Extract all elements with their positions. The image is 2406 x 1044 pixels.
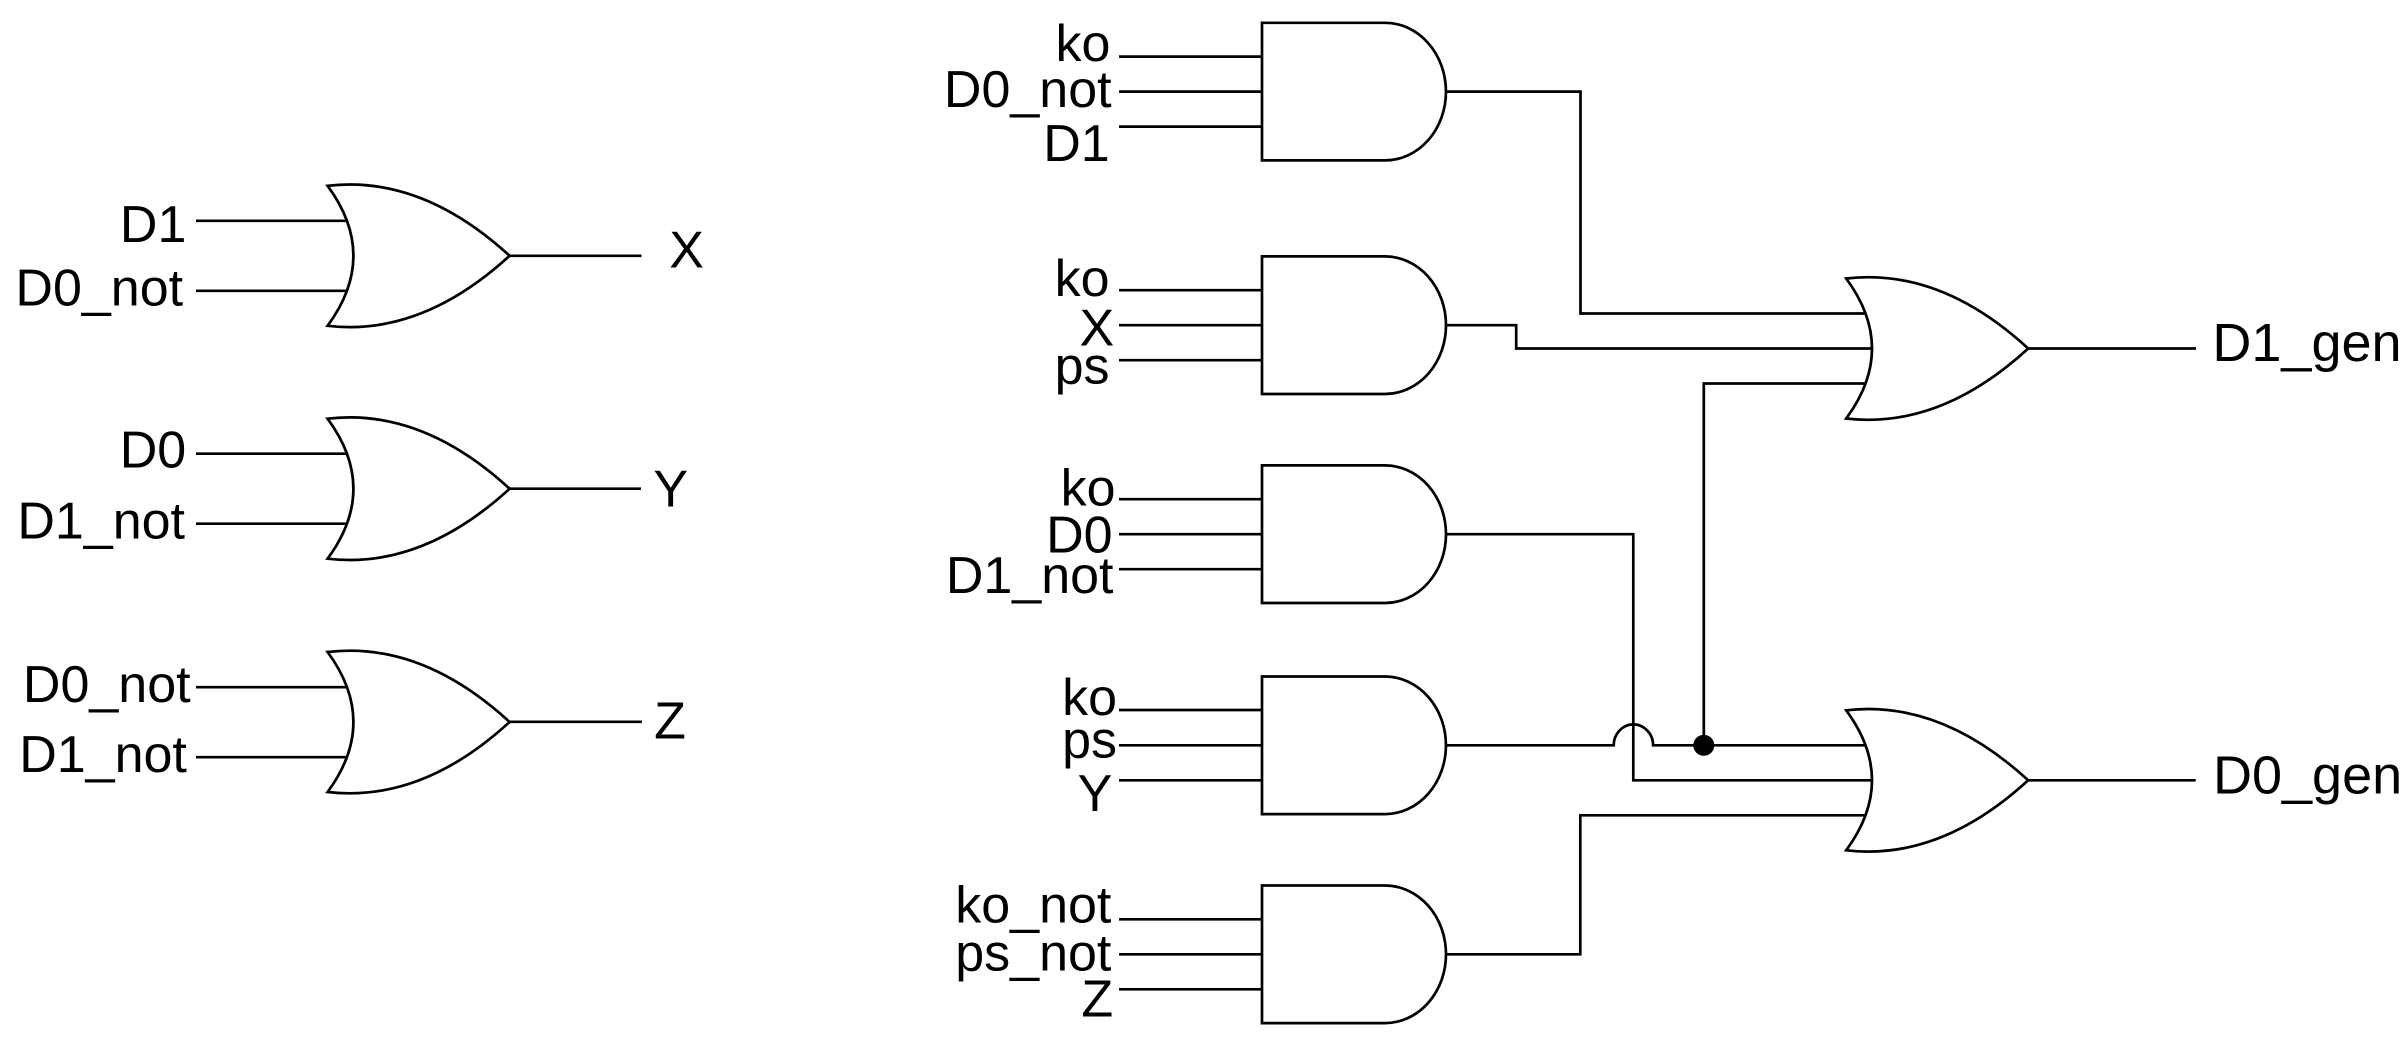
svg-text:D1: D1 (1043, 115, 1109, 173)
or-gate U10 (output D0_gen) (1846, 709, 2028, 852)
or-gate U9 (output D1_gen) (1846, 277, 2028, 420)
and-gate U5 (inputs ko, X, ps) (1262, 256, 1446, 394)
wire ko to AND1 pin 1 (1119, 55, 1263, 58)
svg-text:ps: ps (1062, 711, 1117, 769)
wire ko_not to AND5 pin 1 (1119, 918, 1263, 921)
wire ps_not to AND5 pin 2 (1119, 953, 1263, 956)
wire D1_not to OR3 input 2 (196, 756, 352, 759)
wire X to AND2 pin 2 (1119, 324, 1263, 327)
svg-text:Y: Y (1078, 765, 1113, 823)
wire AND2 output to OR4 input 2 (1446, 325, 1875, 348)
and-gate U7 (inputs ko, ps, Y) (1262, 677, 1446, 815)
wire junction branch to OR4 input 3 (1704, 384, 1872, 746)
wire ps to AND4 pin 2 (1119, 744, 1263, 747)
wire OR4 output to D1_gen (2028, 347, 2196, 350)
or-gate U1 (inputs D1, D0_not ; output X) (328, 185, 510, 328)
svg-text:D1_not: D1_not (19, 726, 187, 784)
wire OR1 output to node X (510, 254, 642, 257)
wire D0_not to AND1 pin 2 (1119, 90, 1263, 93)
wire D1 to AND1 pin 3 (1119, 125, 1263, 128)
svg-text:Z: Z (654, 693, 686, 751)
svg-text:D1_not: D1_not (946, 547, 1114, 605)
wire AND5 output to OR5 input 3 (1446, 815, 1872, 954)
wire ko to AND4 pin 1 (1119, 709, 1263, 712)
wire OR5 output to D0_gen (2028, 779, 2195, 782)
wire OR3 output to node Z (510, 720, 642, 723)
wire D1 to OR1 input 1 (196, 219, 352, 222)
svg-text:ps: ps (1055, 338, 1110, 396)
svg-text:Z: Z (1081, 971, 1113, 1029)
wire D0_not to OR3 input 1 (196, 686, 352, 689)
svg-text:D0: D0 (120, 422, 186, 480)
wire OR2 output to node Y (510, 487, 641, 490)
wire AND4 output to OR5 input 1 with hop over AND3 wire (1446, 724, 1872, 745)
wire D1_not to OR2 input 2 (196, 522, 352, 525)
svg-text:D0_gen: D0_gen (2213, 745, 2402, 805)
junction dot on AND4 output net (1693, 735, 1714, 756)
wire Z to AND5 pin 3 (1119, 988, 1263, 991)
svg-text:D0_not: D0_not (944, 61, 1112, 119)
svg-text:D1_not: D1_not (17, 493, 185, 551)
wire D1_not to AND3 pin 3 (1119, 568, 1263, 571)
svg-text:D0_not: D0_not (23, 656, 191, 714)
and-gate U6 (inputs ko, D0, D1_not) (1262, 465, 1446, 603)
svg-text:Y: Y (653, 461, 688, 519)
wire D0_not to OR1 input 2 (196, 289, 352, 292)
wire ko to AND3 pin 1 (1119, 498, 1263, 501)
wire Y to AND4 pin 3 (1119, 779, 1263, 782)
svg-text:D0_not: D0_not (15, 260, 183, 318)
wire ko to AND2 pin 1 (1119, 289, 1263, 292)
and-gate U8 (inputs ko_not, ps_not, Z) (1262, 886, 1446, 1024)
svg-text:D1_gen: D1_gen (2212, 313, 2401, 373)
svg-text:D1: D1 (120, 196, 186, 254)
wire D0 to OR2 input 1 (196, 452, 352, 455)
svg-text:X: X (669, 221, 704, 279)
or-gate U3 (inputs D0_not, D1_not ; output Z) (328, 651, 510, 794)
wire AND1 output to OR4 input 1 (1446, 92, 1872, 314)
wire D0 to AND3 pin 2 (1119, 533, 1263, 536)
wire ps to AND2 pin 3 (1119, 359, 1263, 362)
and-gate U4 (inputs ko, D0_not, D1) (1262, 23, 1446, 161)
or-gate U2 (inputs D0, D1_not ; output Y) (328, 417, 510, 560)
wire AND3 output to OR5 input 2 (1446, 534, 1875, 780)
